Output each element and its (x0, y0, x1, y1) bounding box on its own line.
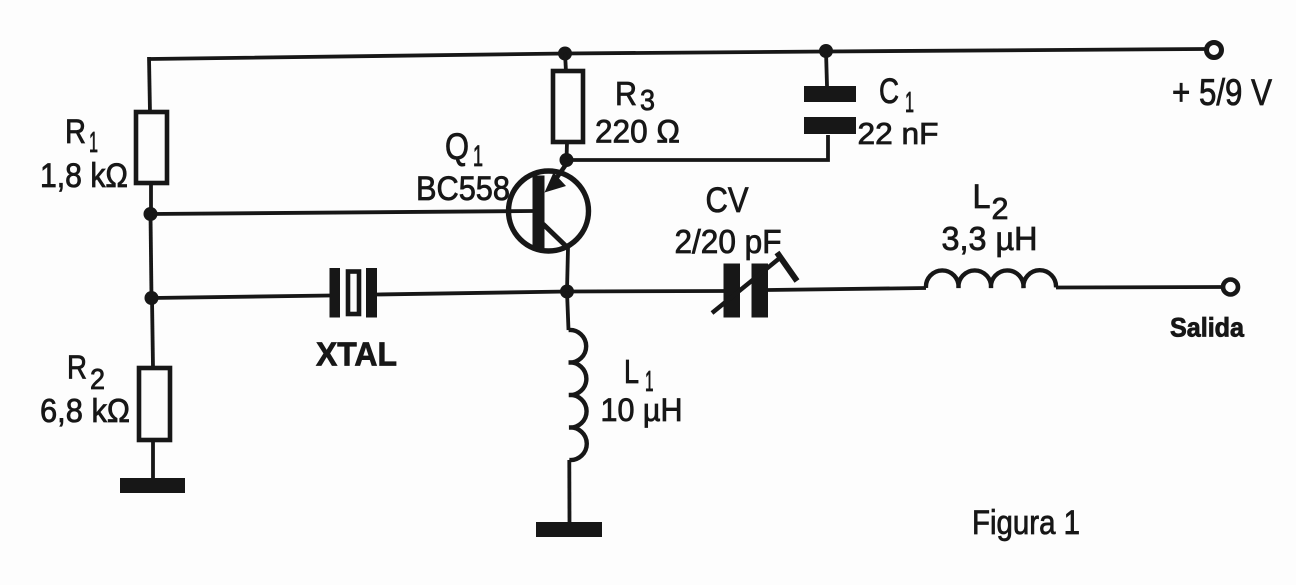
resistor R3 (553, 71, 583, 142)
svg-text:CV: CV (706, 181, 750, 220)
svg-text:6,8 kΩ: 6,8 kΩ (40, 392, 130, 429)
wire emitter node to C1 (567, 135, 829, 160)
node emitter (560, 153, 574, 167)
svg-text:R: R (65, 113, 86, 151)
svg-text:1: 1 (89, 127, 98, 159)
node collector (560, 285, 574, 299)
transistor Q1 (509, 163, 589, 251)
ground L1 (536, 522, 602, 537)
svg-text:BC558: BC558 (416, 170, 510, 208)
capacitor C1 (804, 86, 856, 134)
wire collector node to L1 (567, 292, 569, 331)
wire CV to L2 (768, 288, 926, 290)
wire C1 top to rail (826, 51, 827, 86)
wire L2 to output (1056, 285, 1222, 289)
terminal Salida (1223, 280, 1238, 295)
inductor L2 (926, 270, 1056, 288)
terminal +5/9V (1207, 43, 1222, 58)
svg-text:Q: Q (445, 126, 469, 167)
svg-text:R: R (615, 75, 637, 112)
svg-text:R: R (67, 349, 87, 386)
wire collector down (567, 248, 568, 291)
wire base (150, 211, 533, 214)
svg-text:1: 1 (905, 87, 914, 119)
wire R3 bottom to emitter node (565, 142, 569, 160)
wire R2 to ground (151, 440, 155, 480)
wire node B down to R2 (152, 298, 153, 368)
svg-text:XTAL: XTAL (316, 336, 397, 373)
wire top rail (149, 49, 1205, 59)
svg-text:3: 3 (640, 85, 655, 117)
wire collector node to CV (567, 289, 725, 293)
resistor R1 (136, 112, 167, 183)
svg-text:1: 1 (473, 140, 483, 173)
wire R3 top (565, 53, 566, 72)
svg-text:22 nF: 22 nF (858, 116, 939, 151)
wire R1 to node A (149, 183, 153, 214)
wire L1 to ground (567, 460, 571, 524)
resistor R2 (139, 368, 170, 440)
node top R3 (558, 47, 572, 61)
capacitor CV (trimmer) (712, 253, 797, 318)
inductor L1 (569, 330, 587, 460)
wire node A to node B (151, 214, 152, 298)
svg-text:3,3 µH: 3,3 µH (942, 220, 1038, 257)
svg-text:+ 5/9 V: + 5/9 V (1172, 72, 1272, 113)
svg-text:L: L (973, 178, 991, 216)
svg-text:C: C (879, 72, 899, 111)
svg-text:1,8 kΩ: 1,8 kΩ (40, 157, 128, 195)
svg-text:Figura 1: Figura 1 (972, 504, 1080, 542)
svg-text:L: L (624, 353, 639, 390)
node A (base divider) (144, 207, 158, 221)
wire xtal to collector node (377, 292, 567, 295)
svg-text:220 Ω: 220 Ω (595, 114, 680, 150)
crystal XTAL (330, 268, 378, 318)
wire xtal left segment (152, 296, 331, 299)
svg-text:2/20 pF: 2/20 pF (675, 223, 782, 260)
ground R2 (120, 478, 185, 493)
svg-text:10 µH: 10 µH (601, 392, 683, 428)
svg-text:Salida: Salida (1170, 313, 1245, 343)
node top C1 (819, 44, 833, 58)
node B (xtal line) (145, 291, 159, 305)
wire left vertical upper (149, 57, 150, 113)
